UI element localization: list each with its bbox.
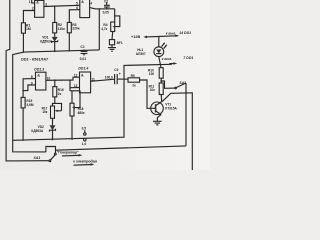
capacitor C4 <box>105 68 128 84</box>
wire ground rail line A <box>13 64 172 140</box>
wire pin1 DD1.1 <box>29 0 35 4</box>
svg-text:10к: 10к <box>150 88 156 92</box>
svg-text:6: 6 <box>76 6 78 10</box>
resistor R16 <box>53 80 64 103</box>
svg-text:100: 100 <box>149 72 155 76</box>
svg-text:&: & <box>81 0 84 4</box>
wire pin13 DD1.4 <box>70 87 80 89</box>
svg-text:2к: 2к <box>132 84 136 88</box>
svg-text:10к: 10к <box>42 110 48 114</box>
svg-text:10: 10 <box>47 76 51 80</box>
svg-text:100,0: 100,0 <box>105 75 113 79</box>
diode VD1 <box>40 33 57 51</box>
capacitor C2 <box>103 0 110 15</box>
wire LED to R10 <box>159 57 161 68</box>
transistor VT1 <box>151 102 178 115</box>
svg-text:&: & <box>37 73 40 77</box>
svg-text:11: 11 <box>91 77 95 81</box>
resistor R4 trimmer <box>101 22 115 32</box>
wire R16 R17 jog <box>53 103 62 110</box>
svg-text:+: + <box>119 72 121 76</box>
wire to pin7 arrow <box>162 56 194 64</box>
svg-text:3: 3 <box>45 3 47 7</box>
earphone BF1 <box>109 32 122 45</box>
switch SA2 <box>161 81 186 146</box>
svg-text:DD1.3: DD1.3 <box>34 67 44 71</box>
svg-text:220к: 220к <box>72 27 80 31</box>
node R18 lineA <box>71 138 73 140</box>
node LED top <box>158 36 160 38</box>
resistor R10 <box>148 68 163 79</box>
resistor R18 trimmer <box>70 91 85 139</box>
svg-text:АЛ307: АЛ307 <box>136 52 146 56</box>
ground VT1 <box>153 121 162 125</box>
wire pin4 DD1.2 output <box>90 2 115 50</box>
wire left rail to SA1 <box>13 52 46 152</box>
svg-text:C1: C1 <box>80 45 84 49</box>
logic gate DD1.2 <box>80 0 90 18</box>
node DD1.3 output to R18 <box>69 79 71 81</box>
wire pin11 DD1.4 output <box>91 77 115 81</box>
wire pin10 DD1.3 output <box>46 76 80 80</box>
svg-text:DD1 - К561ЛА7: DD1 - К561ЛА7 <box>21 57 49 61</box>
svg-text:0,01: 0,01 <box>80 57 87 61</box>
svg-text:4: 4 <box>90 2 92 6</box>
wire pin2 DD1.1 <box>23 7 34 23</box>
wire to pin14 arrow <box>166 31 191 37</box>
svg-text:R9: R9 <box>131 74 135 78</box>
wire emitter to ground <box>157 115 161 122</box>
svg-text:SA1: SA1 <box>34 156 41 160</box>
ground BF1 <box>108 45 116 51</box>
svg-text:&: & <box>81 73 84 77</box>
resistor R9 <box>128 74 151 109</box>
wire R4 column <box>114 9 116 22</box>
svg-text:110к: 110к <box>58 27 65 31</box>
resistor R15 <box>21 97 34 140</box>
node C4 rail <box>123 78 125 80</box>
svg-text:4,7к: 4,7к <box>101 27 107 31</box>
resistor R2 <box>53 6 65 33</box>
resistor R11 <box>149 78 164 102</box>
svg-text:КД503А: КД503А <box>40 39 53 43</box>
svg-text:3,6М: 3,6М <box>26 103 33 107</box>
svg-text:BF1: BF1 <box>117 41 123 45</box>
node LED wire crossing <box>160 64 162 66</box>
svg-text:&: & <box>36 0 39 4</box>
svg-text:5: 5 <box>76 2 78 6</box>
svg-text:к выв.: к выв. <box>166 31 176 35</box>
logic gate DD1.1 <box>35 0 44 17</box>
node R15 lineA <box>22 139 24 141</box>
svg-text:DD1.4: DD1.4 <box>78 67 88 71</box>
svg-text:9: 9 <box>31 81 33 85</box>
wire pin9 DD1.3 <box>23 81 35 90</box>
svg-text:"Генератор": "Генератор" <box>57 151 79 155</box>
svg-text:1: 1 <box>29 0 31 4</box>
node C1 bus <box>83 49 85 51</box>
svg-text:1М: 1М <box>26 27 31 31</box>
node C2 bottom <box>106 8 108 10</box>
wire collector <box>162 93 193 170</box>
wire left vertical bus <box>6 0 49 161</box>
svg-text:C2: C2 <box>104 0 108 3</box>
logic gate DD1.4 <box>74 67 91 93</box>
node VD1 bus <box>54 50 56 52</box>
wire top bus <box>23 50 99 52</box>
wire pin8 DD1.3 <box>23 75 35 97</box>
svg-text:14 DD1: 14 DD1 <box>179 31 191 35</box>
svg-text:КТ315А: КТ315А <box>165 107 177 111</box>
svg-text:к выв.: к выв. <box>162 57 172 61</box>
logic gate DD1.3 <box>34 67 46 90</box>
svg-text:2к: 2к <box>58 92 62 96</box>
svg-text:12: 12 <box>74 73 78 77</box>
node R15 column <box>22 90 24 92</box>
switch SA1 <box>34 146 57 161</box>
svg-text:+12В: +12В <box>131 35 140 39</box>
label +12V <box>131 35 166 39</box>
node R1 bus <box>23 51 25 53</box>
connector pair on line A <box>82 127 87 146</box>
wire pin6 DD1.2 <box>69 6 80 22</box>
label electrodes <box>73 159 97 165</box>
node DD1.3 output to R16 <box>54 79 56 81</box>
label generator <box>57 151 83 157</box>
svg-text:8: 8 <box>31 75 33 79</box>
diode VD2 <box>31 118 55 139</box>
svg-text:0,05: 0,05 <box>103 11 109 15</box>
wire R18 column <box>69 80 71 91</box>
svg-text:2: 2 <box>32 7 34 11</box>
wire line B right <box>56 146 187 150</box>
svg-text:0,5: 0,5 <box>82 127 87 131</box>
node R3 bus <box>68 50 70 52</box>
node R2 top <box>54 5 56 7</box>
node VD2 lineA <box>52 139 54 141</box>
svg-text:680к: 680к <box>78 111 85 115</box>
capacitor C1 <box>80 45 88 61</box>
LED HL1 <box>136 37 167 57</box>
svg-text:1,0: 1,0 <box>82 142 87 146</box>
wire R18 wiper loop <box>70 91 80 108</box>
wire pin3 DD1.1 to pin5 DD1.2 <box>44 2 80 7</box>
svg-text:к электродам: к электродам <box>73 159 97 163</box>
svg-text:КД503А: КД503А <box>31 129 44 133</box>
resistor R3 <box>67 22 80 50</box>
resistor R1 <box>21 23 30 52</box>
node R10 R11 <box>160 80 162 82</box>
svg-text:7 DD1: 7 DD1 <box>183 56 193 60</box>
resistor R17 trimmer <box>42 106 62 118</box>
